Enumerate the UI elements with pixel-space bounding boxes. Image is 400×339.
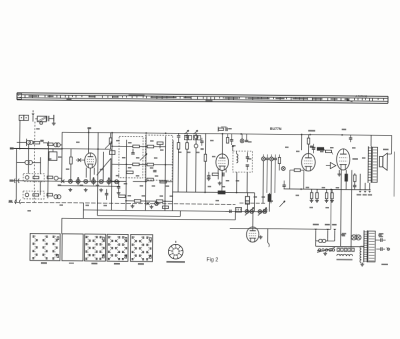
tube V5 EM80 magic eye (246, 227, 259, 242)
resistor R7 (133, 145, 140, 148)
value label 11 (154, 157, 158, 158)
test labels (357, 194, 373, 196)
core adjust arrow A2 (140, 153, 147, 160)
svg-text:BU77N: BU77N (270, 127, 282, 131)
heater winding L5 (337, 254, 353, 256)
pickup hook (268, 229, 270, 247)
resistor R15 (119, 195, 126, 198)
value label 33 (248, 158, 252, 159)
tube V1 top lead (87, 127, 91, 153)
AF bus y186.4 (284, 188, 371, 190)
wave trap potentiometer (35, 116, 46, 124)
value label 4 (100, 169, 104, 170)
heater drop x341.5 (340, 170, 343, 246)
load resistor R31 (268, 193, 271, 212)
test lead 2 (364, 183, 367, 193)
mains switch S2 (316, 239, 335, 243)
value label 47 (306, 187, 310, 188)
mains label 2 (325, 224, 330, 226)
line cap C24 (376, 247, 385, 251)
value label 49 (336, 187, 340, 188)
switch assembly link (61, 218, 63, 234)
ground G3 (84, 188, 88, 192)
value label 16 (155, 175, 159, 176)
ground G11 (360, 263, 364, 267)
value label 37 (262, 196, 266, 197)
value label 42 (312, 147, 316, 148)
wire vert x126.5 (125, 140, 128, 210)
value label 7 (150, 140, 154, 141)
spark gap arrow A5 (184, 130, 191, 140)
ground G7 (150, 205, 154, 209)
value label 67 (222, 186, 226, 187)
loudspeaker LS1 (379, 153, 387, 170)
speaker return (371, 135, 392, 154)
transformer labels (379, 233, 384, 237)
coil L3 (194, 133, 198, 192)
value label 10 (136, 157, 140, 158)
IF can T2 (dashed) (145, 135, 172, 180)
value label 5 (116, 140, 120, 141)
tone pot P2 (258, 208, 267, 216)
resistor R17 (156, 200, 163, 203)
mains label 3 (332, 224, 337, 226)
value label 43 (320, 151, 324, 152)
tuning bus upper (58, 180, 120, 183)
switch wafer S1b (84, 234, 105, 264)
coil L2 (16, 157, 40, 174)
value label 66 (208, 186, 212, 187)
terminal B (10, 147, 62, 150)
resistor R16 (134, 200, 141, 203)
capacitor C8 (153, 170, 156, 171)
aerial socket pair (19, 115, 29, 148)
switch spacer frame (62, 234, 83, 264)
decoupling cap C15 (207, 172, 211, 181)
value label 46 (362, 157, 366, 158)
electrolytic C18 (245, 193, 249, 212)
pilot lamp LA2 (356, 234, 361, 240)
pilot lamp LA1 (351, 235, 356, 240)
value label 53 (341, 234, 345, 235)
resistor R10 (133, 163, 140, 166)
resistor R9 (157, 142, 163, 148)
chassis stub right (240, 202, 266, 204)
capacitor C9 (117, 181, 120, 191)
diode load pair 1 (262, 154, 269, 160)
detector output resistor R35 (290, 169, 304, 189)
wire vert x28.7 (27, 144, 29, 173)
serial number (381, 264, 388, 265)
coil L1 (26, 139, 33, 146)
tuning gang C3d (115, 180, 119, 184)
resistor R3 (47, 176, 62, 180)
value label 59 (36, 128, 40, 129)
value label 26 (187, 152, 191, 153)
ground G5 (117, 191, 121, 195)
value label 68 (216, 200, 220, 201)
tube V1 pin leads (86, 168, 94, 182)
mains lead 1 (314, 229, 317, 242)
cathode cap C14 (223, 172, 224, 176)
switch wafer S1a (30, 234, 60, 264)
value label 44 (330, 147, 334, 148)
resistor R8 (147, 145, 154, 148)
value label 2 (58, 156, 62, 157)
heater drop x352 (350, 170, 353, 248)
value label 19 (152, 185, 156, 186)
resistor R13 (147, 178, 154, 181)
value label 35 (236, 180, 240, 181)
tone box (236, 207, 242, 212)
type number text (270, 127, 282, 131)
value label 8 (160, 149, 164, 150)
tube V2 EF89 IF amplifier (216, 154, 229, 171)
wire vert x173 (171, 140, 174, 210)
switch wafer S1d (130, 234, 152, 264)
value label 9 (122, 157, 126, 158)
tuning bus lower (58, 185, 120, 188)
coupling cap C20 (282, 181, 285, 189)
IF bottom line B (97, 210, 180, 216)
diode load pair 2 (270, 154, 277, 160)
value label 50 (296, 195, 300, 196)
chassis line left (8, 200, 235, 204)
detector resistor R26 (278, 154, 281, 170)
can T3 output leads (237, 172, 248, 193)
tube V2 top lead (221, 134, 223, 154)
aerial down-lead (31, 110, 34, 121)
value label 23 (160, 195, 164, 196)
volume pot P1 (245, 207, 254, 215)
coupling cap C2 (76, 158, 85, 161)
coupling box (49, 149, 57, 161)
value label 30 (228, 128, 232, 129)
value label 12 (128, 167, 132, 168)
wire vert x111 (110, 158, 112, 181)
primary wire y243.4 (316, 242, 364, 247)
AVC resistor R25 (324, 149, 333, 155)
value label 55 (317, 250, 321, 251)
label 4V (342, 233, 347, 237)
dial scale strip assembly (17, 93, 388, 104)
magic eye feed (252, 212, 254, 227)
OT primary lead (370, 135, 372, 146)
coupling cap C19 (310, 144, 315, 154)
tube V2 pin leads (218, 169, 226, 190)
grid resistor R20 (200, 134, 207, 193)
label det (263, 209, 268, 210)
resistor R4 (47, 193, 61, 198)
plate resistor R23 (307, 135, 310, 154)
value label 17 (124, 183, 128, 184)
screen resistor R19 (226, 134, 228, 143)
value label 57 (58, 184, 62, 185)
value label 62 (103, 205, 107, 206)
ground G2 (68, 188, 72, 192)
valve socket bottom view (166, 241, 185, 263)
decoupling pair above bus (218, 127, 227, 132)
wave switch cross (61, 179, 64, 182)
HT supply bus (62, 131, 371, 136)
value label 15 (136, 175, 140, 176)
output transformer T4 (368, 146, 378, 183)
AC symbol (386, 246, 389, 251)
mains label 1 (313, 224, 319, 226)
value label 51 (309, 207, 313, 208)
switch contact row (146, 202, 158, 206)
value label 13 (150, 167, 154, 168)
value label 3 (66, 168, 70, 169)
resistor R1 (34, 140, 44, 144)
IF can T3 (dashed) (233, 151, 253, 172)
tube V4 EL84 output (337, 149, 350, 170)
capacitor C7 (131, 149, 134, 154)
heater line y226.3 (230, 188, 331, 229)
value label 36 (254, 196, 258, 197)
wire vert x146 (144, 136, 147, 210)
value label 6 (128, 142, 132, 143)
tuning gang C3b (84, 179, 88, 183)
wire left vert x16.7 (15, 149, 18, 203)
value label 41 (296, 151, 300, 152)
volume feed resistor R22 (218, 191, 225, 194)
AVC diagonal line (97, 158, 111, 175)
ground G9 (259, 235, 263, 239)
grid stopper pair (240, 134, 248, 143)
capacitor C1 (46, 115, 54, 122)
value label 28 (210, 140, 214, 141)
value label 20 (166, 185, 170, 186)
IF frame left (96, 133, 99, 216)
padding box (109, 151, 115, 155)
ground G8 (218, 181, 222, 185)
wire vert x48.3 (47, 141, 50, 198)
IF bottom line C (62, 203, 236, 220)
tap labels (336, 259, 352, 261)
spring hook contacts 2 (15, 200, 21, 204)
value label 21 (128, 195, 132, 196)
wire vert x40.7 lower (39, 181, 41, 194)
value label 64 (85, 205, 89, 206)
AVC resistor R24 (317, 147, 324, 150)
ground G4 (99, 188, 103, 192)
value label 45 (352, 147, 356, 148)
trimmer C6 (107, 177, 111, 185)
mains transformer T5 (360, 230, 375, 262)
ground G1 (52, 122, 56, 126)
right margin wire (393, 152, 395, 197)
AF line y190.5 (173, 191, 255, 193)
tuning gang C3c (99, 180, 103, 184)
tone arrow A4 (279, 201, 285, 207)
detector circle (281, 167, 285, 171)
IF can T1 (dashed) (119, 136, 143, 178)
value label 25 (178, 152, 182, 153)
value label 1 (76, 142, 80, 143)
diode D1 (326, 162, 336, 168)
value label 31 (232, 145, 236, 146)
screen cap C13 (230, 134, 234, 145)
value label 24 (170, 195, 174, 196)
grid resistor R5 (70, 149, 73, 182)
value label 27 (196, 152, 200, 153)
voltage selector (317, 246, 335, 255)
value label 38 (246, 200, 250, 201)
IF bottom line A (83, 210, 267, 212)
value label 18 (140, 185, 144, 186)
band filter can F2 (dashed) (23, 191, 44, 199)
spring hook contacts (14, 179, 19, 183)
value label 63 (59, 204, 63, 205)
band filter can F1 (dashed) (23, 174, 44, 182)
test lead 1 (359, 174, 362, 193)
label right of V4 (352, 158, 358, 160)
screen resistor R6 (109, 133, 112, 150)
value label 22 (142, 195, 146, 196)
value label 65 (27, 210, 31, 211)
mains lead 2 (326, 229, 329, 239)
capacitor C16 (246, 152, 249, 162)
dial strip part number (347, 94, 368, 102)
svg-text:Fig 2: Fig 2 (206, 257, 218, 263)
value label 60 (80, 185, 84, 186)
ground G6 (131, 204, 135, 208)
value label 61 (96, 185, 100, 186)
wire row1 links (16, 132, 62, 181)
test lead 3 (368, 183, 371, 193)
wire IF row y199.8 (126, 200, 172, 202)
cathode arrow A3 (232, 145, 234, 151)
tube V1 ECH81 mixer (85, 153, 97, 168)
cathode resistor R32 (345, 170, 348, 190)
capacitor C11b (176, 133, 180, 192)
value label 32 (248, 141, 252, 142)
capacitor C17 (246, 165, 249, 170)
label above V3 (308, 130, 315, 132)
tube V3 EABC80 detector (302, 153, 316, 171)
tuning gang C3a (68, 179, 72, 183)
label above V4 (342, 129, 347, 131)
value label 58 (48, 158, 52, 159)
resistor R11 (147, 163, 154, 166)
divider resistor R30 (330, 189, 334, 202)
figure caption (206, 257, 218, 263)
wire vert x103.5 (102, 152, 104, 182)
speaker label (383, 149, 389, 151)
cathode ground G10 (337, 170, 341, 176)
aerial dashed feed line (33, 122, 36, 203)
trimmer C4 (76, 177, 80, 185)
value label 54 (329, 250, 333, 251)
trimmer C5 (91, 177, 95, 185)
wire vert x165.5 (164, 136, 167, 210)
divider resistor R27 (310, 189, 314, 202)
junction dots IF (111, 145, 167, 202)
mains lead 3 (333, 229, 336, 239)
core adjust arrow A1 (105, 142, 112, 149)
coil L4 (236, 151, 238, 163)
value label 48 (322, 187, 326, 188)
capacitor C10 (105, 189, 109, 200)
resistor R2 (47, 143, 60, 147)
mains terminal (387, 248, 389, 250)
resistor R12 (127, 171, 134, 174)
wire IF row y145.3 (112, 145, 165, 148)
line cap C23 (375, 238, 385, 242)
tap strip (337, 248, 354, 252)
divider resistor R29 (325, 189, 329, 202)
spark gap arrow A6 (193, 130, 200, 140)
AF line continue (253, 193, 255, 212)
divider resistor R28 (315, 189, 319, 202)
detector drop wire (301, 135, 303, 151)
value label 56 (378, 234, 382, 235)
wire verts detector (263, 160, 275, 204)
value label 52 (325, 207, 329, 208)
switch wafer S1c (107, 234, 128, 264)
resistor R18 (162, 206, 168, 209)
coupling cap C21 (225, 210, 231, 213)
terminal A (9, 180, 57, 183)
bus cap C22 (349, 135, 352, 142)
cathode resistor R21 (212, 173, 218, 179)
value label 29 (212, 156, 216, 157)
capacitor C12b (185, 133, 189, 192)
svg-text:A 7079 30: A 7079 30 (356, 94, 368, 98)
wire IF row y180 (112, 180, 173, 183)
value label 40 (285, 147, 289, 148)
bypass chain R33 (353, 173, 357, 189)
wire vert x112 (110, 133, 113, 210)
resistor R14 (160, 180, 167, 183)
left AVC bus (10, 147, 112, 150)
value label 14 (116, 175, 120, 176)
value label 34 (226, 180, 230, 181)
wire IF row y163.3 (112, 163, 173, 166)
value label 39 (270, 200, 274, 201)
